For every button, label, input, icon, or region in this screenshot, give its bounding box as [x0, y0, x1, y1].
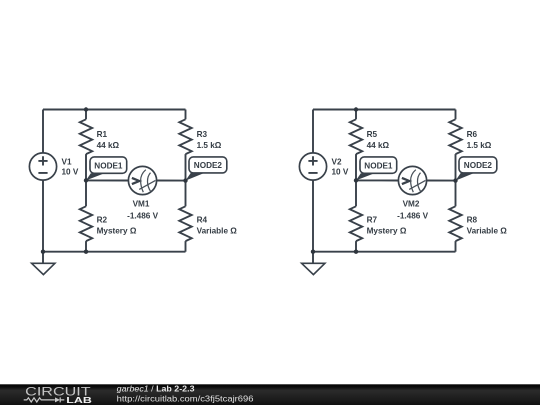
- resistor R6 1.5 kOhm: [449, 119, 461, 154]
- wire top rail V1 circuit: [43, 109, 186, 111]
- wire R6 top stub: [455, 110, 457, 120]
- svg-text:R5: R5: [367, 130, 378, 139]
- svg-text:-1.486 V: -1.486 V: [127, 211, 158, 220]
- voltmeter VM2: [398, 166, 426, 194]
- wire NODE1 to R7: [355, 180, 357, 206]
- junction node NODE2: [453, 178, 457, 182]
- wire left branch lower (V2 bottom lead): [312, 180, 314, 252]
- wire bottom rail: [43, 251, 186, 253]
- junction bottom rail / R7: [354, 250, 358, 254]
- junction node NODE1: [354, 178, 358, 182]
- svg-text:1.5 kΩ: 1.5 kΩ: [467, 141, 492, 150]
- node NODE2 flag: [186, 157, 227, 181]
- svg-text:NODE2: NODE2: [464, 161, 493, 170]
- svg-text:VM1: VM1: [133, 200, 150, 209]
- svg-text:10 V: 10 V: [332, 168, 349, 177]
- wire NODE1 to voltmeter: [86, 179, 128, 181]
- svg-text:R6: R6: [467, 130, 478, 139]
- wire NODE2 to R4: [185, 181, 187, 207]
- svg-text:NODE1: NODE1: [94, 161, 123, 170]
- resistor R4 Variable: [179, 206, 191, 241]
- svg-text:V2: V2: [332, 158, 342, 167]
- svg-text:R2: R2: [97, 215, 108, 224]
- svg-text:http://circuitlab.com/c3fj5tca: http://circuitlab.com/c3fj5tcajr696: [117, 394, 254, 404]
- ground symbol: [32, 252, 55, 275]
- junction bottom-left node: [311, 250, 315, 254]
- wire top rail V2 circuit: [313, 109, 456, 111]
- resistor R2 Mystery: [80, 206, 92, 241]
- wire NODE1 to R2: [85, 180, 87, 206]
- wire R3 to NODE2: [185, 154, 187, 181]
- resistor R5 44 kOhm: [350, 119, 362, 154]
- svg-text:1.5 kΩ: 1.5 kΩ: [197, 141, 222, 150]
- junction node NODE2: [183, 178, 187, 182]
- svg-text:Mystery Ω: Mystery Ω: [367, 226, 407, 235]
- svg-text:-1.486 V: -1.486 V: [397, 211, 428, 220]
- wire left branch lower (V1 bottom lead): [42, 180, 44, 252]
- wire R5 to NODE1: [355, 154, 357, 180]
- wire R2 bottom stub: [85, 241, 87, 252]
- resistor R3 1.5 kOhm: [179, 119, 191, 154]
- svg-text:NODE2: NODE2: [194, 161, 223, 170]
- junction top rail / R5: [354, 107, 358, 111]
- logo resistor-diode glyph: [24, 397, 65, 402]
- node NODE1 flag: [86, 157, 127, 181]
- wire NODE1 to voltmeter: [356, 179, 398, 181]
- wire R4 bottom stub: [185, 241, 187, 252]
- voltage source V2 10 V: [299, 153, 326, 180]
- wire left branch upper (V2 top lead): [312, 110, 314, 153]
- resistor R1 44 kOhm: [80, 119, 92, 154]
- svg-text:Mystery Ω: Mystery Ω: [97, 226, 137, 235]
- svg-text:R7: R7: [367, 215, 378, 224]
- svg-text:Variable Ω: Variable Ω: [467, 226, 508, 235]
- resistor R7 Mystery: [350, 206, 362, 241]
- svg-text:44 kΩ: 44 kΩ: [97, 141, 120, 150]
- svg-text:V1: V1: [62, 158, 72, 167]
- wire left branch upper (V1 top lead): [42, 110, 44, 153]
- voltage source V1 10 V: [29, 153, 56, 180]
- voltmeter VM1: [128, 166, 156, 194]
- node NODE1 flag: [356, 157, 397, 181]
- svg-text:garbec1 / Lab 2-2.3: garbec1 / Lab 2-2.3: [117, 384, 195, 394]
- svg-text:NODE1: NODE1: [364, 161, 393, 170]
- wire voltmeter to NODE2: [157, 180, 186, 182]
- wire voltmeter to NODE2: [427, 180, 456, 182]
- wire R1 to NODE1: [85, 154, 87, 180]
- svg-text:R8: R8: [467, 215, 478, 224]
- svg-text:R4: R4: [197, 215, 208, 224]
- junction top rail / R1: [84, 107, 88, 111]
- wire R8 bottom stub: [455, 241, 457, 252]
- wire R1 top stub: [85, 110, 87, 120]
- ground symbol: [302, 252, 325, 275]
- svg-text:Variable Ω: Variable Ω: [197, 226, 238, 235]
- svg-text:VM2: VM2: [403, 200, 420, 209]
- svg-text:LAB: LAB: [66, 395, 92, 405]
- wire NODE2 to R8: [455, 181, 457, 207]
- svg-text:44 kΩ: 44 kΩ: [367, 141, 390, 150]
- svg-text:10 V: 10 V: [62, 168, 79, 177]
- junction node NODE1: [84, 178, 88, 182]
- wire bottom rail: [313, 251, 456, 253]
- wire R6 to NODE2: [455, 154, 457, 181]
- node NODE2 flag: [456, 157, 497, 181]
- wire R3 top stub: [185, 110, 187, 120]
- svg-text:R1: R1: [97, 130, 108, 139]
- junction bottom-left node: [41, 250, 45, 254]
- wire R7 bottom stub: [355, 241, 357, 252]
- junction bottom rail / R2: [84, 250, 88, 254]
- resistor R8 Variable: [449, 206, 461, 241]
- wire R5 top stub: [355, 110, 357, 120]
- svg-text:R3: R3: [197, 130, 208, 139]
